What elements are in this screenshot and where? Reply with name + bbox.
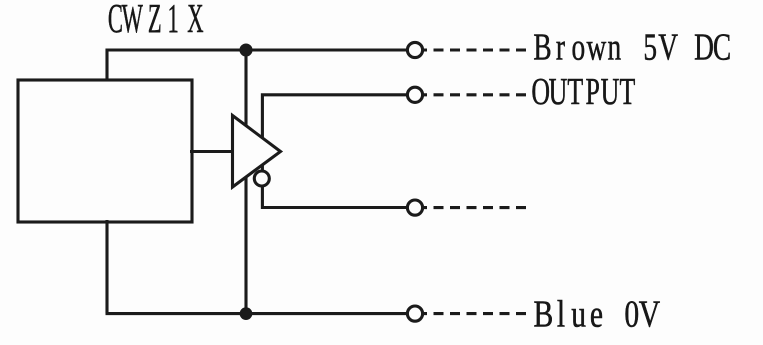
terminal Blue 0V: [407, 306, 422, 321]
label CWZ1X: [108, 0, 204, 42]
node junction dot on 0V rail: [241, 309, 251, 319]
terminal OUTPUT: [407, 87, 422, 102]
wire vertical from sensor box bottom to 0V rail: [105, 220, 108, 314]
op-amp buffer triangle: [233, 116, 281, 188]
terminal Brown 5V DC: [407, 42, 422, 57]
svg-text:OUTPUT: OUTPUT: [531, 71, 635, 113]
wire sensor output to buffer input: [190, 150, 233, 153]
wire OUTPUT corner line down to complementary output corner: [262, 95, 408, 208]
svg-text:Blue 0V: Blue 0V: [533, 294, 660, 335]
wire vertical bus from top junction down to 0V rail: [244, 50, 247, 314]
sensor block: [18, 80, 192, 222]
svg-text:CWZ1X: CWZ1X: [108, 0, 204, 42]
wire bottom horizontal 0V rail: [106, 312, 409, 315]
node junction dot on 5V rail: [241, 45, 251, 55]
svg-text:Brown 5V DC: Brown 5V DC: [533, 26, 731, 68]
dashed lead Brown 5V DC: [423, 48, 528, 51]
dashed lead complementary output: [423, 206, 528, 209]
wire vertical from top rail to sensor box top: [105, 49, 108, 82]
dashed lead OUTPUT: [423, 93, 528, 96]
wire top horizontal 5V rail: [107, 48, 408, 51]
terminal complementary output: [407, 200, 422, 215]
label Blue 0V: [533, 294, 660, 335]
inverting bubble on buffer output edge: [254, 171, 269, 186]
label OUTPUT: [531, 71, 635, 113]
dashed lead Blue 0V: [423, 312, 528, 315]
label Brown 5V DC: [533, 26, 731, 68]
